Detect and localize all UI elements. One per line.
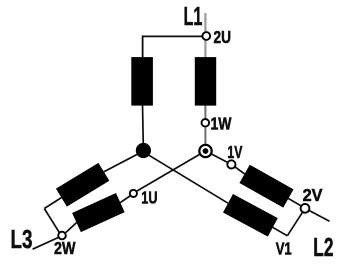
wire node N1 to winding W3 [103,153,139,172]
wire 2U to top corner (horizontal) [143,35,202,37]
wire 1W to node N2 (gray) [204,127,206,144]
wire winding W5 to terminal 2V [288,199,300,206]
wire terminal 1V to winding W5 [235,167,245,174]
wire top corner down to winding W1 [142,36,144,59]
terminal 2U [202,32,210,40]
svg-text:2U: 2U [214,27,232,47]
svg-text:2V: 2V [303,185,323,205]
svg-text:L3: L3 [11,226,33,254]
terminal 2V [301,204,310,213]
svg-text:1W: 1W [211,114,232,134]
wire winding W1 bottom to node N1 [142,104,145,146]
wire node N1 to winding W6 (crossing) [148,155,228,204]
terminal 1V [227,160,235,168]
node N2 inner dot [203,148,209,154]
wire terminal 1U to node N2 [137,154,199,191]
wire 2U to winding W2 top (gray) [204,41,206,58]
winding W2 (right vertical) [195,57,216,106]
wire winding W2 bottom to 1W (gray) [204,104,206,118]
winding W1 (left vertical) [131,57,153,106]
svg-text:L2: L2 [313,234,333,262]
winding W3 (upper-left diagonal) [61,172,104,198]
wire winding W4 to terminal 1U [120,196,130,203]
winding W5 (upper-right diagonal) [245,174,289,199]
winding W6 (lower-right diagonal) [228,203,273,227]
svg-text:2W: 2W [54,238,76,258]
winding W4 (lower-left diagonal) [77,203,121,223]
svg-text:V1: V1 [276,239,292,259]
svg-text:1U: 1U [141,187,157,207]
wire node N2 to terminal 1V [212,154,227,162]
wire corner K2 up to terminal 2V [287,212,302,235]
terminal 1W [202,119,210,127]
terminal 1U [130,190,137,197]
wire L3 lead [33,238,58,250]
node N1 (star point, filled) [136,143,151,158]
wire terminal 2W to winding W4 [66,223,77,233]
wire corner K1 down to terminal 2W [44,209,59,233]
svg-text:L1: L1 [184,3,203,31]
terminal 2W [58,232,66,240]
wire winding W6 to corner K2 [273,227,288,235]
svg-text:1V: 1V [227,142,242,162]
node N2 (circled dot) [199,145,211,157]
wire L2 lead [309,210,330,221]
wire L1 lead (gray) [204,13,206,31]
wire winding W3 to corner K1 [44,198,61,209]
